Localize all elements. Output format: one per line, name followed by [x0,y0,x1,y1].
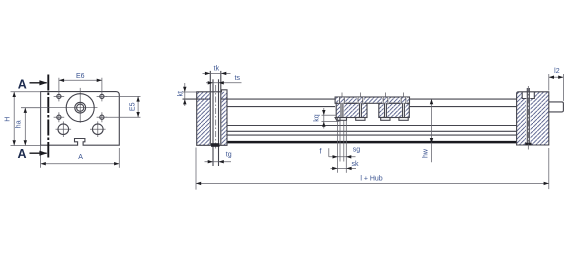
left block clamp bolt shaft [212,79,214,166]
dimension tg [205,152,232,164]
bore B1 outer circle [66,94,94,122]
dimension hw [423,99,434,162]
body bottom thick band [227,141,517,144]
carriage top plate hatched [335,97,409,103]
svg-text:l + Hub: l + Hub [360,176,382,183]
dimension l2 [549,68,564,101]
hole mid-right [97,112,108,122]
svg-text:kt: kt [177,91,184,97]
dimension ts [206,75,242,85]
svg-text:tg: tg [226,152,232,159]
section arrow top [30,82,47,84]
body lower line 1 [227,125,517,127]
right block notch [522,92,534,99]
svg-text:f: f [320,148,322,155]
dimension A (width) [41,148,120,168]
dimension sk [331,161,360,170]
right block bolt shaft [526,88,528,143]
dimension f [320,148,356,158]
bore B1 center lines [21,107,98,109]
bore B1 inner hole [77,104,84,111]
dimension E6 [59,73,102,92]
svg-text:H: H [5,117,12,122]
carriage bolt 2 [356,93,365,121]
section arrow bottom [30,152,47,154]
hole bottom-left [56,121,72,137]
svg-text:l2: l2 [554,68,560,75]
plate left flange edge extended for A dimension [40,92,42,168]
left block bolt head [211,143,220,147]
right block center line [527,86,529,150]
dimension ha [16,108,41,146]
svg-text:ha: ha [16,120,23,128]
slot extension line outer-right [345,121,347,173]
body profile top line [183,98,336,100]
left end block hatched [197,90,227,146]
hole top-left [54,91,65,101]
dimension sg [346,147,360,159]
dimension kq [313,108,338,129]
carriage left foot [335,118,340,121]
bore B1 counterbore ring [75,102,86,113]
svg-text:A: A [18,77,27,91]
carriage bolt 4 [399,93,408,121]
carriage right clamp block [379,103,410,117]
svg-text:E5: E5 [129,102,136,111]
carriage bolt 3 [381,93,390,121]
right block bolt channel [526,99,531,144]
svg-text:tk: tk [214,65,220,72]
svg-text:sg: sg [353,147,361,154]
section line A-A (thick dash-dot) [47,75,49,158]
slot extension line outer-left [337,121,339,173]
plate outline with bottom T-slot notch [41,92,120,146]
right end block hatched [517,92,549,145]
svg-text:ts: ts [235,75,241,82]
slot extension line inner-left [339,121,341,162]
svg-text:kq: kq [313,114,320,122]
hole top-right [97,91,108,101]
drive shaft [549,102,564,112]
left block slot edges [209,71,211,145]
svg-text:sk: sk [352,161,360,168]
dimension E5 [106,96,141,117]
carriage left clamp block [336,103,367,117]
dimension l + Hub [196,148,549,190]
dimension kt [177,83,196,106]
slot extension line inner-right [343,121,345,162]
hole mid-left [54,112,65,122]
svg-text:hw: hw [423,148,430,158]
left block center line [215,85,217,151]
dimension H [5,92,41,146]
svg-text:A: A [78,154,83,161]
hole bottom-right [90,121,106,137]
svg-text:A: A [17,147,26,161]
dimension tk [203,65,231,75]
body lower line 3 [227,134,517,136]
carriage bolt 1 [337,93,346,121]
right block bolt head mark [525,143,531,146]
body profile second line [227,106,335,108]
svg-text:E6: E6 [76,73,85,80]
body lower line 2 [227,130,517,132]
